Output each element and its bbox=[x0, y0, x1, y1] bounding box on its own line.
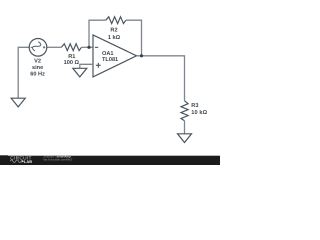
svg-text:htp://circuitlab.com/9byT: htp://circuitlab.com/9byT bbox=[43, 158, 72, 161]
wire: feedback left vertical and top bbox=[89, 20, 106, 47]
wire: source left lead to corner and down bbox=[18, 47, 29, 98]
svg-text:1 kΩ: 1 kΩ bbox=[108, 34, 121, 41]
watermark logo arrow bbox=[22, 160, 25, 163]
V2 plus mark bbox=[43, 46, 45, 48]
ground (below V2) bbox=[11, 98, 25, 107]
wire: plus input to ground bbox=[80, 64, 93, 68]
watermark bar bbox=[0, 156, 220, 165]
svg-text:60 Hz: 60 Hz bbox=[30, 72, 45, 78]
svg-text:10 kΩ: 10 kΩ bbox=[191, 109, 207, 116]
ground (below R3) bbox=[178, 134, 192, 143]
svg-text:V2: V2 bbox=[34, 59, 41, 65]
svg-text:100 Ω: 100 Ω bbox=[64, 60, 80, 66]
wire: source right lead bbox=[47, 46, 62, 48]
resistor R1 zigzag bbox=[61, 44, 81, 51]
wire: R2 right to feedback vertical down bbox=[126, 20, 142, 56]
op-amp plus pin mark bbox=[96, 63, 101, 68]
V2 minus mark bbox=[31, 46, 33, 48]
op-amp minus pin mark bbox=[95, 46, 98, 48]
wire: op-amp output to R3 top bbox=[137, 56, 185, 101]
V2 sine glyph bbox=[32, 41, 42, 53]
wire: R1 to op-amp minus input bbox=[82, 46, 94, 48]
resistor R3 zigzag (vertical) bbox=[181, 101, 188, 121]
svg-text:sine: sine bbox=[32, 64, 43, 71]
svg-text:LAB: LAB bbox=[24, 159, 32, 164]
voltage source V2 circle bbox=[29, 39, 47, 57]
node junction dot at R1/op-amp input bbox=[87, 46, 90, 49]
op-amp U1 triangle bbox=[93, 35, 137, 77]
ground (op-amp plus input) bbox=[73, 68, 87, 77]
node junction dot at output bbox=[140, 54, 143, 57]
wire: R3 bottom lead bbox=[184, 121, 186, 134]
svg-text:R3: R3 bbox=[191, 103, 198, 109]
svg-text:R2: R2 bbox=[110, 27, 117, 33]
watermark logo squiggle bbox=[10, 160, 21, 163]
svg-text:TL081: TL081 bbox=[102, 57, 118, 63]
resistor R2 zigzag bbox=[106, 17, 126, 24]
